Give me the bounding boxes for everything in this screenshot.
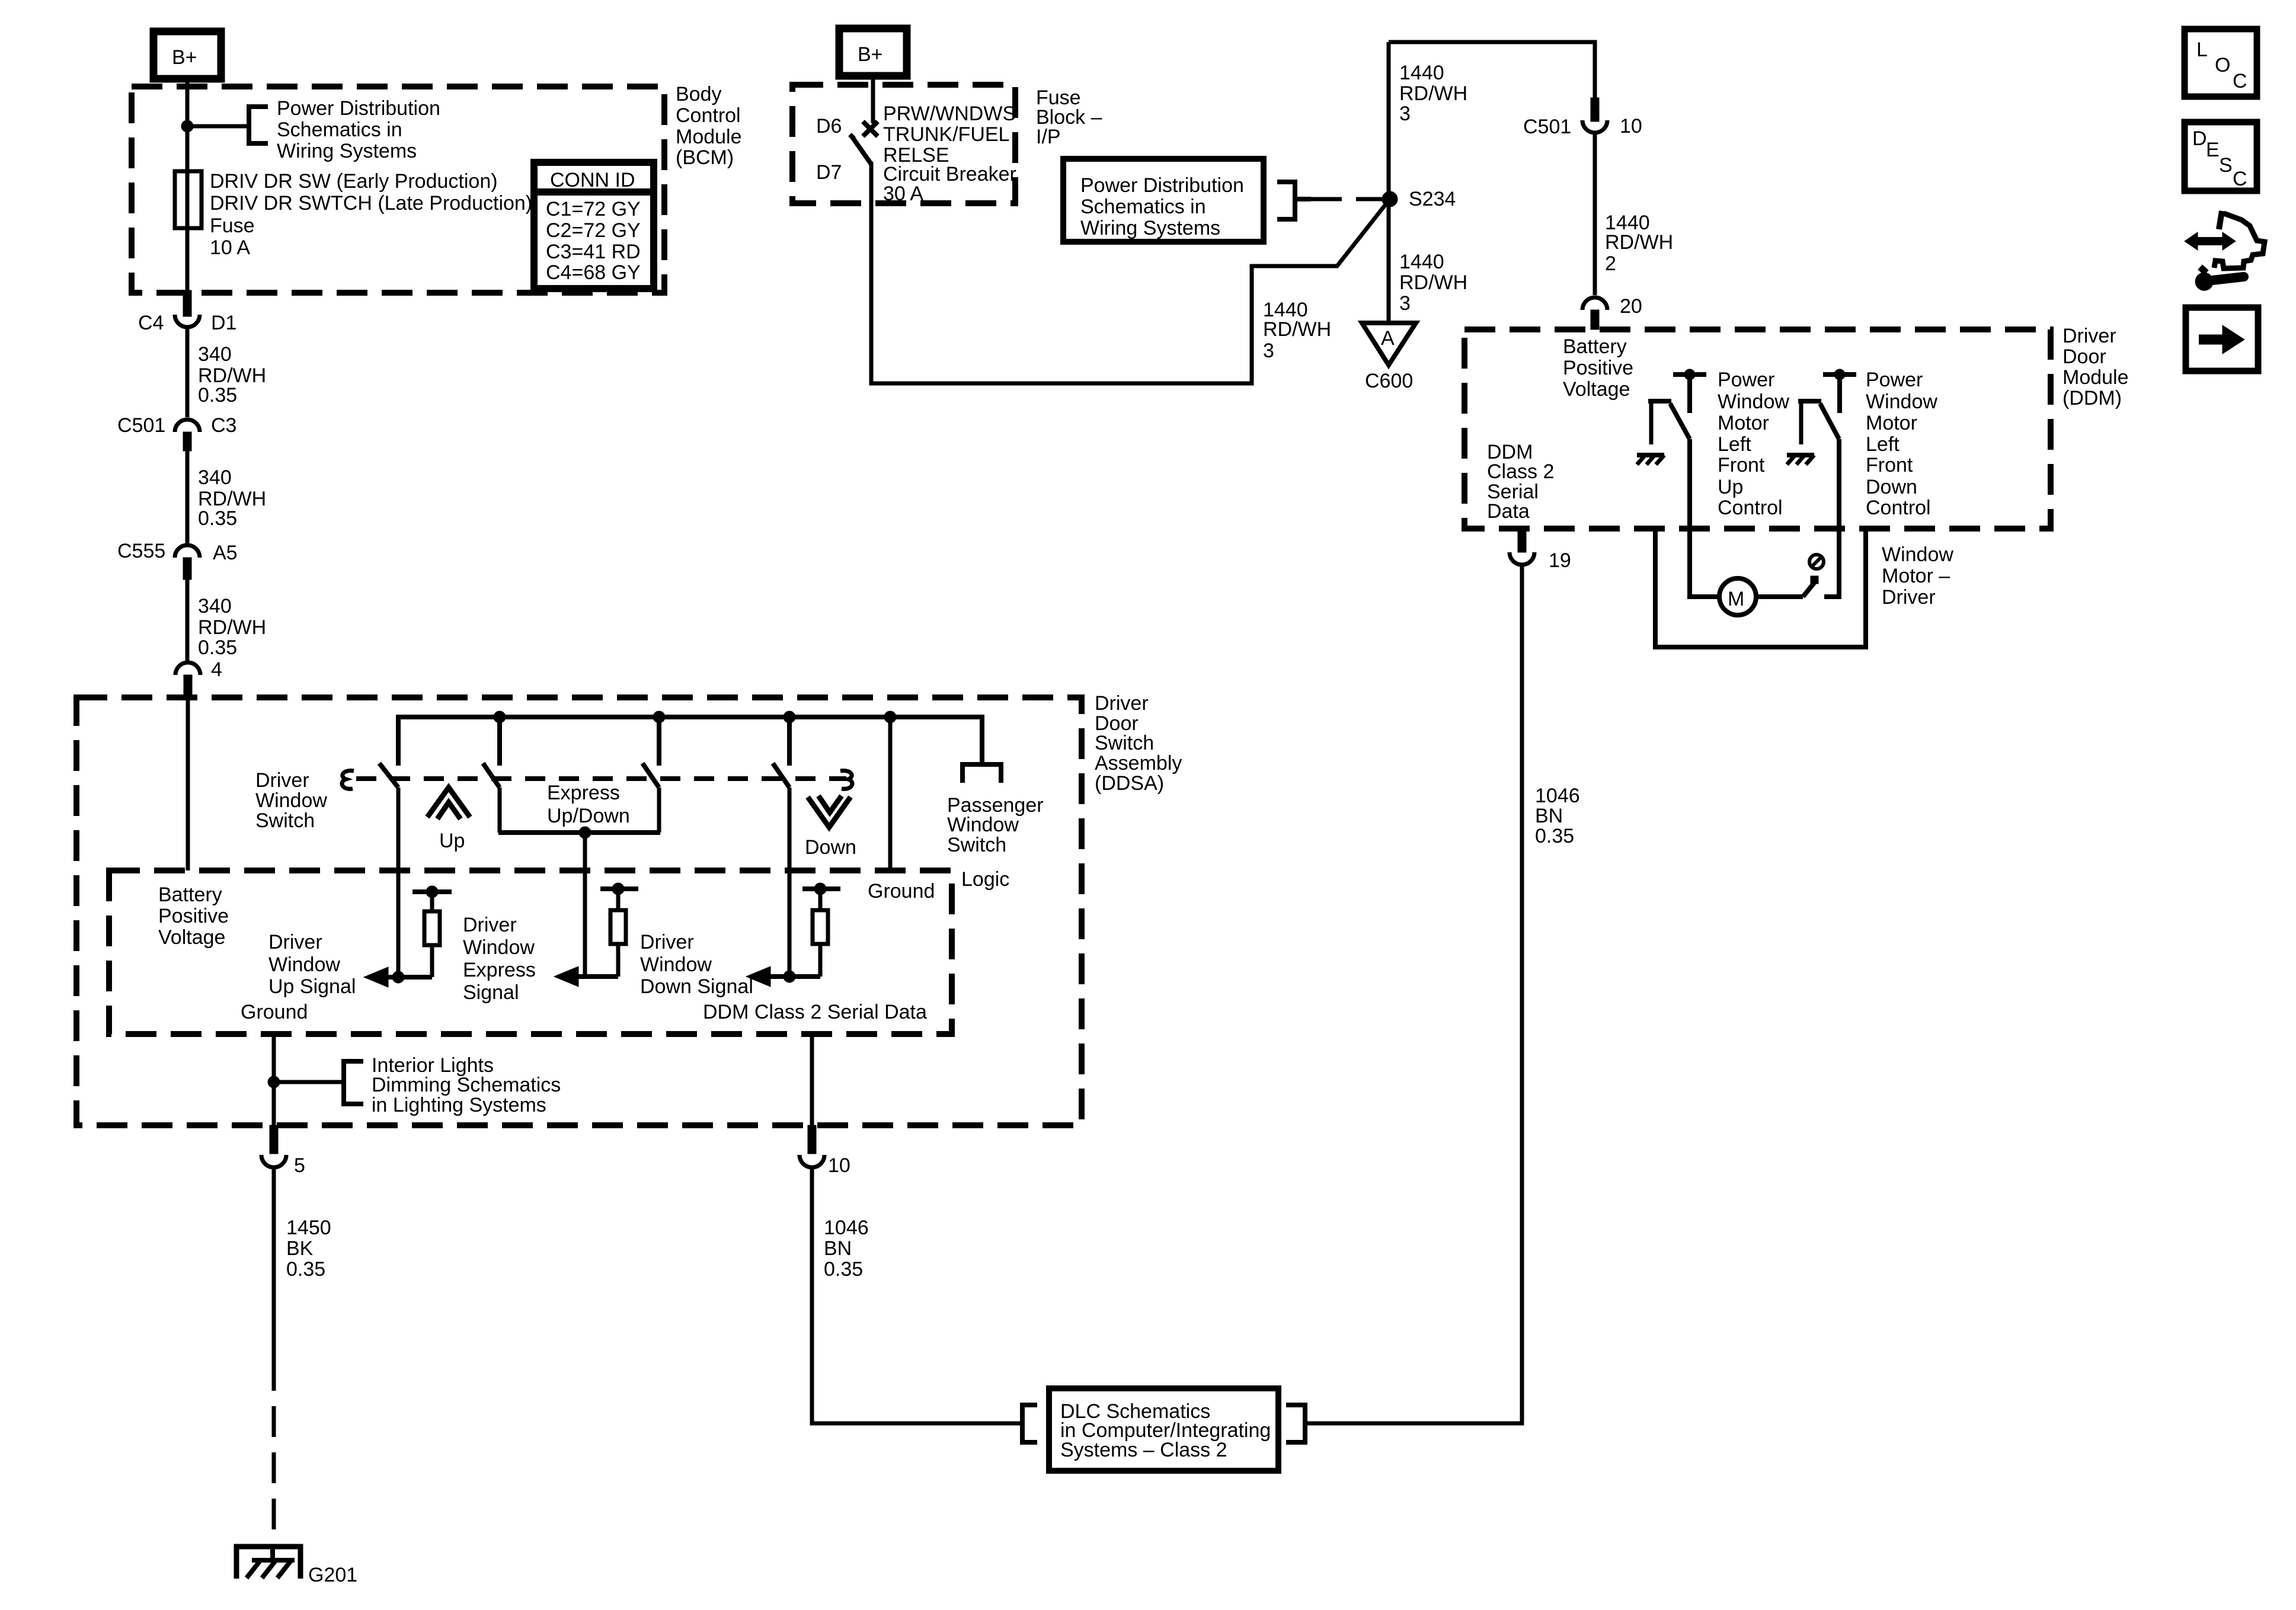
- svg-text:Module: Module: [676, 126, 742, 148]
- icon LOC box: [2185, 29, 2257, 97]
- logic inner box DDSA (dashed): [109, 870, 952, 1034]
- reference bracket DLC right: [1286, 1405, 1305, 1442]
- linkage curl right: [840, 771, 852, 789]
- label Express Up/Down: [547, 782, 630, 827]
- svg-text:C3: C3: [211, 414, 236, 437]
- label Passenger Window Switch: [947, 794, 1044, 856]
- label wire 340 RD/WH 0.35 (2): [198, 466, 266, 530]
- label Power Distribution Schematics in Wiring Systems: [277, 97, 440, 162]
- wire switch bus: [398, 717, 982, 766]
- svg-text:Driver: Driver: [268, 931, 322, 953]
- battery feed B+ terminal (left): [154, 31, 221, 79]
- wire 1450 BK (dashed part): [272, 1360, 276, 1547]
- svg-text:Power: Power: [1718, 369, 1774, 391]
- svg-text:Up Signal: Up Signal: [268, 975, 356, 998]
- svg-text:20: 20: [1620, 295, 1642, 318]
- svg-text:Window: Window: [255, 789, 327, 812]
- label fuse DRIV DR SW: [210, 170, 532, 259]
- symbol Down chevron: [808, 796, 850, 827]
- label wire 1440 RD/WH 2: [1605, 212, 1673, 275]
- label wire 1440 RD/WH 3 (run): [1263, 299, 1331, 362]
- svg-text:Assembly: Assembly: [1095, 752, 1182, 774]
- svg-text:0.35: 0.35: [198, 636, 237, 659]
- connector pin 19 DDM: [1510, 529, 1571, 572]
- switch power window motor down control: [1798, 369, 1856, 444]
- svg-text:Body: Body: [676, 83, 722, 105]
- label Interior Lights Dimming Schematics: [372, 1054, 561, 1116]
- wire DLC to pin 19 riser: [1305, 566, 1522, 1423]
- svg-text:Dimming Schematics: Dimming Schematics: [372, 1074, 561, 1096]
- label wire 1450 BK 0.35: [286, 1217, 331, 1281]
- svg-text:Switch: Switch: [1095, 732, 1154, 754]
- svg-text:Voltage: Voltage: [158, 926, 225, 949]
- table CONN ID: [534, 162, 654, 289]
- svg-text:A: A: [1381, 327, 1395, 350]
- svg-text:Battery: Battery: [1563, 335, 1627, 358]
- fuse block I/P box (dashed): [792, 85, 1015, 203]
- resistor express pull-up: [600, 883, 638, 977]
- node interior lights tap: [268, 1076, 280, 1088]
- wire 1440 top run to C501: [1389, 42, 1595, 100]
- label Driver Window Up Signal: [268, 931, 356, 998]
- svg-text:Positive: Positive: [1563, 357, 1633, 379]
- svg-text:Ground: Ground: [241, 1001, 308, 1023]
- svg-text:Control: Control: [1866, 497, 1931, 519]
- label wire 1046 BN 0.35 (riser): [1535, 785, 1580, 847]
- wire 1450 BK (solid part): [272, 1167, 276, 1360]
- reference box Power Distribution: [1063, 159, 1264, 242]
- reference bracket DLC left: [1022, 1405, 1037, 1442]
- connector C555 pin A5: [117, 540, 238, 580]
- svg-text:19: 19: [1549, 549, 1571, 572]
- svg-text:RD/WH: RD/WH: [1605, 231, 1673, 254]
- svg-text:Window: Window: [640, 953, 712, 976]
- splice S234: [1382, 188, 1456, 210]
- label Power Window Motor Left Front Up Control: [1718, 369, 1789, 519]
- wire motor to thermal breaker: [1756, 594, 1803, 599]
- svg-text:0.35: 0.35: [1535, 825, 1574, 847]
- svg-text:0.35: 0.35: [824, 1258, 863, 1281]
- svg-text:in Lighting Systems: in Lighting Systems: [372, 1094, 546, 1116]
- module box BCM (dashed): [132, 87, 664, 293]
- svg-text:4: 4: [211, 658, 222, 681]
- svg-text:PRW/WNDWS: PRW/WNDWS: [883, 103, 1016, 125]
- svg-text:C2=72 GY: C2=72 GY: [546, 219, 641, 242]
- wire express output: [583, 833, 587, 977]
- label Driver Door Switch Assembly (DDSA): [1095, 692, 1182, 795]
- svg-text:Schematics in: Schematics in: [277, 119, 402, 141]
- circuit breaker arm: [850, 135, 871, 164]
- svg-text:Left: Left: [1718, 433, 1751, 456]
- svg-text:Window: Window: [1718, 391, 1789, 413]
- svg-text:1046: 1046: [1535, 785, 1580, 807]
- svg-text:Switch: Switch: [255, 809, 315, 832]
- svg-text:Wiring Systems: Wiring Systems: [277, 140, 417, 162]
- svg-text:Control: Control: [676, 104, 741, 127]
- svg-text:Battery: Battery: [158, 884, 222, 906]
- label wire 1440 RD/WH 3 (below S234): [1399, 251, 1467, 315]
- svg-text:1046: 1046: [824, 1217, 869, 1239]
- svg-text:RD/WH: RD/WH: [1399, 271, 1467, 294]
- node express output: [579, 827, 591, 838]
- svg-text:0.35: 0.35: [198, 384, 237, 406]
- wire ground to pin 5: [272, 1034, 276, 1125]
- svg-text:Module: Module: [2062, 366, 2129, 389]
- svg-text:Wiring Systems: Wiring Systems: [1080, 217, 1220, 239]
- svg-text:2: 2: [1605, 252, 1616, 275]
- svg-text:0.35: 0.35: [286, 1258, 325, 1281]
- svg-text:DRIV DR SWTCH (Late Production: DRIV DR SWTCH (Late Production): [210, 192, 532, 215]
- connector pin 5: [261, 1125, 305, 1177]
- connector C4 pin D1: [138, 290, 236, 334]
- connector C501 pin 10: [1523, 98, 1642, 138]
- svg-text:Positive: Positive: [158, 905, 229, 927]
- svg-text:340: 340: [198, 466, 232, 489]
- svg-text:B+: B+: [172, 46, 197, 69]
- svg-text:S234: S234: [1409, 188, 1456, 210]
- motor M window motor driver: [1719, 578, 1756, 615]
- wire B+ into breaker: [871, 75, 875, 123]
- svg-text:1440: 1440: [1399, 251, 1444, 273]
- label wire 340 RD/WH 0.35 (3): [198, 595, 266, 659]
- svg-text:10: 10: [1620, 115, 1642, 137]
- svg-text:C: C: [2233, 168, 2247, 190]
- svg-text:(DDM): (DDM): [2062, 387, 2122, 409]
- svg-text:Window: Window: [947, 814, 1019, 836]
- svg-text:3: 3: [1263, 340, 1274, 362]
- label wire 340 RD/WH 0.35 (1): [198, 343, 266, 406]
- svg-text:Signal: Signal: [463, 981, 519, 1004]
- icon diagnostic outline: [2214, 211, 2265, 268]
- wire 1440 RD/WH 2: [1593, 133, 1597, 295]
- svg-text:Left: Left: [1866, 433, 1900, 456]
- ground G201: [236, 1547, 300, 1579]
- thermal cutout arm: [1803, 576, 1818, 597]
- svg-text:Power: Power: [1866, 369, 1923, 391]
- svg-text:Motor –: Motor –: [1882, 565, 1950, 587]
- svg-text:Driver: Driver: [640, 931, 694, 953]
- svg-text:C555: C555: [117, 540, 165, 562]
- svg-text:TRUNK/FUEL: TRUNK/FUEL: [883, 123, 1009, 146]
- icon DESC box: [2185, 122, 2257, 191]
- svg-text:340: 340: [198, 595, 232, 617]
- svg-text:Window: Window: [1866, 391, 1937, 413]
- module box DDM (dashed): [1464, 329, 2051, 529]
- svg-text:Ground: Ground: [868, 880, 935, 902]
- svg-text:Driver: Driver: [1095, 692, 1149, 715]
- wire 340 RD/WH segment 2: [186, 451, 190, 543]
- symbol circuit breaker circle-slash: [1809, 555, 1824, 569]
- svg-text:RD/WH: RD/WH: [198, 616, 266, 639]
- wire ground drop from bus: [884, 711, 896, 870]
- svg-text:340: 340: [198, 343, 232, 366]
- label Driver Window Switch: [255, 769, 327, 832]
- battery feed B+ terminal (fuse block): [839, 28, 907, 76]
- svg-text:0.35: 0.35: [198, 507, 237, 530]
- svg-text:DRIV DR SW (Early Production): DRIV DR SW (Early Production): [210, 170, 498, 193]
- svg-text:Down: Down: [805, 836, 856, 859]
- svg-text:M: M: [1728, 588, 1744, 610]
- wire to interior lights bracket: [274, 1080, 344, 1084]
- switch passenger window (logic stub): [962, 764, 1001, 783]
- svg-text:L: L: [2196, 39, 2208, 61]
- node express bus taps: [494, 711, 665, 723]
- svg-text:Window: Window: [268, 953, 340, 976]
- svg-text:DDM Class 2 Serial Data: DDM Class 2 Serial Data: [703, 1001, 927, 1023]
- svg-text:Down Signal: Down Signal: [640, 975, 753, 998]
- switch power window motor up control: [1648, 369, 1706, 444]
- svg-text:Door: Door: [2062, 345, 2106, 368]
- svg-text:Logic: Logic: [961, 868, 1009, 891]
- svg-text:Front: Front: [1866, 454, 1913, 476]
- svg-text:Down: Down: [1866, 476, 1917, 498]
- svg-text:Class 2: Class 2: [1487, 460, 1554, 483]
- wire motor housing loop: [1655, 530, 1866, 647]
- svg-text:C: C: [2233, 70, 2247, 92]
- svg-text:B+: B+: [858, 43, 883, 66]
- ground symbol (up switch): [1637, 455, 1664, 465]
- svg-text:10: 10: [828, 1154, 850, 1177]
- wire down control to breaker stub: [1824, 439, 1839, 597]
- wire driver window express signal arrow: [554, 966, 618, 987]
- svg-text:Express: Express: [547, 782, 620, 804]
- wire 340 RD/WH segment 1: [186, 327, 190, 417]
- wire fuse to connector C4: [186, 228, 190, 295]
- svg-text:RD/WH: RD/WH: [1399, 82, 1467, 105]
- connector pin 4 DDSA: [175, 658, 222, 697]
- svg-text:5: 5: [294, 1154, 305, 1177]
- svg-text:BN: BN: [1535, 805, 1563, 827]
- svg-text:RD/WH: RD/WH: [1263, 318, 1331, 341]
- wire up control to motor: [1690, 439, 1718, 597]
- switch express up/down (double): [483, 717, 660, 833]
- svg-text:Window: Window: [1882, 543, 1953, 566]
- svg-text:Fuse: Fuse: [210, 215, 255, 237]
- svg-text:D1: D1: [211, 312, 236, 334]
- icon diagnostic wrench: [2195, 265, 2244, 290]
- mechanical linkage (dashed): [356, 776, 846, 781]
- connector C501 pin C3: [117, 414, 236, 451]
- wire driver window down signal arrow: [746, 966, 820, 987]
- wire 340 RD/WH segment 3: [186, 580, 190, 661]
- svg-text:C1=72 GY: C1=72 GY: [546, 198, 641, 220]
- fuse DRIV DR SW 10A: [175, 171, 202, 228]
- label Battery Positive Voltage (DDM): [1563, 335, 1633, 401]
- wire junction to reference bracket: [187, 124, 249, 129]
- svg-text:D6: D6: [816, 115, 842, 137]
- svg-text:Up: Up: [1718, 476, 1743, 498]
- label DDM Class 2 Serial Data: [1487, 441, 1554, 523]
- svg-text:3: 3: [1399, 292, 1411, 315]
- label PRW/WNDWS circuit breaker 30 A: [883, 103, 1016, 205]
- svg-text:D7: D7: [816, 161, 842, 184]
- svg-text:(DDSA): (DDSA): [1095, 772, 1164, 795]
- svg-text:O: O: [2215, 54, 2230, 76]
- label Battery Positive Voltage (DDSA): [158, 884, 229, 949]
- svg-text:1450: 1450: [286, 1217, 331, 1239]
- wire dashed link to S234: [1311, 197, 1384, 201]
- svg-text:10 A: 10 A: [210, 236, 250, 259]
- circuit breaker contact X: [863, 121, 878, 136]
- svg-text:Driver: Driver: [463, 914, 517, 936]
- svg-text:Schematics in: Schematics in: [1080, 196, 1206, 218]
- label wire 1046 BN 0.35 (lower): [824, 1217, 869, 1281]
- label Body Control Module (BCM): [676, 83, 742, 169]
- svg-text:C501: C501: [1523, 116, 1571, 138]
- svg-text:3: 3: [1399, 103, 1411, 125]
- reference bracket Power Distribution right: [1277, 182, 1311, 219]
- svg-text:Switch: Switch: [947, 834, 1006, 856]
- svg-text:Front: Front: [1718, 454, 1765, 476]
- svg-text:Driver: Driver: [2062, 325, 2116, 347]
- label Driver Door Module (DDM): [2062, 325, 2129, 409]
- resistor up-signal pull-up: [412, 886, 452, 977]
- svg-text:(BCM): (BCM): [676, 146, 734, 169]
- connector pin 20 DDM: [1582, 295, 1642, 329]
- svg-text:S: S: [2219, 154, 2233, 177]
- linkage curl left: [342, 771, 354, 789]
- svg-text:C3=41 RD: C3=41 RD: [546, 241, 641, 263]
- svg-text:Power Distribution: Power Distribution: [277, 97, 440, 120]
- reference box DLC Schematics: [1049, 1388, 1278, 1471]
- label Window Motor - Driver: [1882, 543, 1953, 609]
- connector pin 10: [800, 1125, 850, 1177]
- reference bracket interior lights: [344, 1061, 363, 1104]
- wire battery feed into DDSA: [186, 697, 190, 870]
- svg-text:1440: 1440: [1399, 62, 1444, 84]
- svg-text:Express: Express: [463, 959, 536, 981]
- svg-text:A5: A5: [213, 542, 238, 564]
- svg-text:C4=68 GY: C4=68 GY: [546, 261, 641, 284]
- wire serial data to pin 10: [810, 1034, 814, 1125]
- svg-text:Driver: Driver: [255, 769, 309, 792]
- svg-text:D: D: [2192, 127, 2207, 150]
- module box DDSA (dashed): [76, 697, 1082, 1125]
- icon arrow box: [2186, 308, 2258, 371]
- label Driver Window Down Signal: [640, 931, 753, 998]
- label Fuse Block - I/P: [1036, 87, 1102, 148]
- wire driver window up signal arrow: [364, 967, 432, 987]
- svg-text:Systems – Class 2: Systems – Class 2: [1060, 1439, 1227, 1461]
- svg-text:C600: C600: [1365, 370, 1413, 392]
- svg-text:Window: Window: [463, 936, 535, 959]
- connector C600 (triangle A): [1362, 323, 1416, 392]
- svg-text:Up: Up: [439, 830, 465, 852]
- node junction on B+ feed: [181, 120, 193, 132]
- svg-text:G201: G201: [308, 1564, 357, 1586]
- svg-text:C501: C501: [117, 414, 165, 437]
- svg-text:Data: Data: [1487, 500, 1530, 523]
- wire B+ to fuse: [186, 79, 190, 171]
- svg-text:BN: BN: [824, 1237, 852, 1260]
- reference bracket Power Distribution (BCM): [249, 107, 268, 143]
- wire 1440 main vertical: [1387, 42, 1391, 323]
- svg-text:E: E: [2206, 139, 2220, 161]
- svg-text:Power Distribution: Power Distribution: [1080, 174, 1244, 197]
- svg-text:30 A: 30 A: [883, 183, 923, 205]
- svg-text:Control: Control: [1718, 497, 1783, 519]
- svg-text:C4: C4: [138, 312, 164, 334]
- switch driver window down: [773, 711, 795, 977]
- switch driver window up: [379, 763, 398, 977]
- resistor down-signal pull-up: [802, 883, 840, 977]
- wire 1046 BN from pin 10: [812, 1167, 1022, 1423]
- label Driver Window Express Signal: [463, 914, 536, 1004]
- wire breaker output run to S234: [871, 162, 1390, 383]
- svg-text:I/P: I/P: [1036, 126, 1061, 148]
- label Power Window Motor Left Front Down Control: [1866, 369, 1937, 519]
- svg-text:Motor: Motor: [1718, 412, 1769, 434]
- svg-text:Voltage: Voltage: [1563, 378, 1630, 401]
- svg-text:CONN ID: CONN ID: [550, 169, 635, 191]
- ground symbol (down switch): [1787, 455, 1814, 465]
- svg-text:Up/Down: Up/Down: [547, 805, 630, 827]
- svg-text:BK: BK: [286, 1237, 314, 1260]
- svg-text:Driver: Driver: [1882, 586, 1936, 609]
- symbol Up chevron: [427, 788, 470, 819]
- icon diagnostic double arrow: [2185, 232, 2236, 250]
- svg-text:Motor: Motor: [1866, 412, 1917, 434]
- label wire 1440 RD/WH 3 (top): [1399, 62, 1467, 125]
